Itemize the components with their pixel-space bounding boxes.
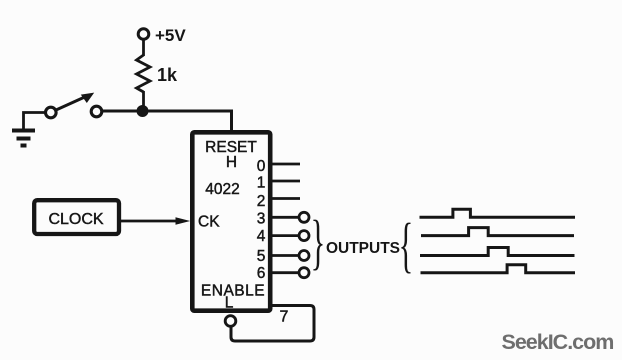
pin 3 wire and terminal	[272, 212, 309, 222]
switch S1	[46, 93, 102, 118]
svg-text:3: 3	[257, 211, 266, 228]
svg-text:}: }	[311, 209, 326, 276]
pin 2 wire	[272, 197, 300, 200]
svg-text:2: 2	[257, 193, 266, 210]
svg-text:6: 6	[257, 265, 266, 282]
pin 5 wire and terminal	[272, 251, 309, 261]
svg-text:H: H	[226, 154, 237, 171]
wire resistor to junction	[142, 91, 145, 111]
svg-text:4: 4	[257, 228, 266, 245]
waveform output 6	[421, 265, 576, 273]
pin 7 loop wire	[231, 306, 314, 342]
pin 4 wire and terminal	[272, 231, 309, 241]
svg-text:4022: 4022	[205, 181, 239, 198]
svg-text:1k: 1k	[157, 65, 178, 85]
svg-text:CK: CK	[198, 214, 220, 231]
IC U1 4022 box	[192, 132, 270, 310]
svg-text:5: 5	[257, 248, 266, 265]
svg-text:SeekIC.com: SeekIC.com	[502, 330, 614, 354]
waveform output 5	[420, 248, 575, 256]
svg-text:L: L	[225, 295, 234, 312]
svg-text:{: {	[399, 212, 414, 279]
svg-text:CLOCK: CLOCK	[48, 211, 103, 228]
waveform output 4	[421, 228, 574, 236]
pin 6 wire and terminal	[272, 268, 309, 278]
clock box	[34, 200, 119, 234]
arrowhead	[176, 217, 191, 225]
svg-text:0: 0	[257, 158, 266, 175]
junction node	[137, 105, 149, 117]
wire main horizontal to IC top	[102, 111, 232, 131]
resistor R1 1k	[137, 55, 151, 92]
svg-text:1: 1	[257, 175, 266, 192]
svg-text:7: 7	[280, 309, 289, 326]
svg-text:OUTPUTS: OUTPUTS	[326, 240, 400, 257]
waveform output 3	[420, 209, 576, 217]
arrow wire clock to CK	[121, 220, 178, 223]
svg-text:+5V: +5V	[155, 26, 186, 45]
wire switch to ground	[24, 113, 46, 130]
wire terminal to resistor	[142, 40, 145, 57]
enable terminal circle	[225, 316, 236, 327]
pin 1 wire	[272, 180, 300, 183]
pin 0 wire	[272, 163, 300, 166]
+5V terminal	[138, 29, 149, 40]
ground	[12, 131, 35, 146]
